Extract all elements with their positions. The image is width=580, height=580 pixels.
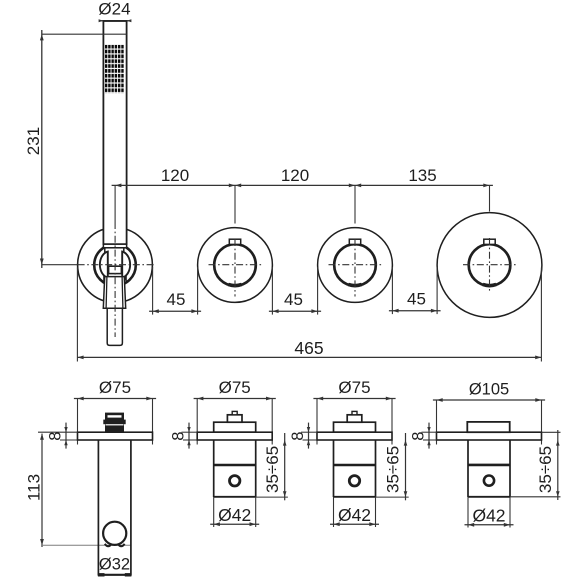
- section view 1 dimension 113: [25, 434, 44, 547]
- svg-text:35÷65: 35÷65: [536, 446, 555, 493]
- svg-text:45: 45: [167, 290, 186, 309]
- section view 3 dimension 8: [289, 423, 317, 449]
- section view 1 dimension Ø75: [74, 378, 156, 444]
- section view 2 dimension Ø75: [194, 378, 276, 444]
- section view 2 dimension Ø42: [210, 497, 259, 527]
- section view 4 dimension Ø105: [433, 381, 545, 445]
- hand shower handle body: [103, 21, 126, 244]
- hand shower spray face dots: [105, 45, 125, 93]
- section view 3 valve body: [317, 411, 392, 497]
- svg-text:8: 8: [47, 432, 65, 441]
- dimension 45 between valve 2 and 3: [269, 267, 321, 315]
- section view 2 dimension 8: [170, 423, 198, 449]
- section view 2 valve body: [197, 411, 272, 497]
- dimension line 465: [77, 356, 541, 360]
- dimension 45 between valve 3 and 4: [389, 267, 441, 314]
- section view 1 extension line at tube bottom: [42, 544, 131, 546]
- section view 3 dimension Ø75: [313, 378, 395, 444]
- svg-text:45: 45: [407, 289, 426, 308]
- dimension text 120 (first): [161, 166, 189, 185]
- dimension 465 extension lines: [77, 268, 541, 362]
- svg-text:Ø42: Ø42: [472, 506, 505, 526]
- section view 1 dimension text Ø32: [99, 555, 130, 573]
- valve 2 trim (outer circle, cartridge, tab, centerlines): [198, 228, 273, 303]
- dimension text 120 (second): [281, 166, 309, 185]
- section view 1 hand shower ball end: [103, 522, 126, 545]
- section view 4 dimension 8: [410, 423, 437, 449]
- svg-text:Ø42: Ø42: [338, 505, 371, 525]
- section view 4 dimension Ø42: [465, 497, 514, 528]
- svg-text:Ø75: Ø75: [338, 378, 370, 397]
- svg-text:8: 8: [410, 432, 428, 441]
- svg-text:35÷65: 35÷65: [384, 446, 403, 493]
- dimension text 231: [24, 127, 43, 155]
- svg-text:Ø32: Ø32: [99, 555, 130, 573]
- section view 3 dimension Ø42: [330, 497, 379, 527]
- valve 3 trim (outer circle, cartridge, tab, centerlines): [318, 228, 393, 303]
- valve 1 outer escutcheon circle: [78, 228, 153, 303]
- valve 1 vertical centerline: [114, 185, 116, 337]
- svg-text:8: 8: [289, 432, 307, 441]
- valve 1 inner cartridge circle: [94, 244, 136, 286]
- extension line valve 3 center: [354, 185, 356, 223]
- section view 2 dimension 35÷65: [256, 433, 288, 500]
- section view 1 dimension 8: [38, 423, 78, 449]
- holder neck: [105, 248, 124, 267]
- hand shower hose stub: [107, 308, 122, 345]
- svg-text:135: 135: [408, 166, 436, 185]
- dimension line 231 vertical: [40, 30, 44, 268]
- holder left wing: [100, 252, 108, 278]
- top dimension chain line: [112, 184, 493, 188]
- svg-text:120: 120: [281, 166, 309, 185]
- dimension text 135: [408, 166, 436, 185]
- svg-text:231: 231: [24, 127, 43, 155]
- section view 1 drop tube: [98, 440, 131, 576]
- svg-text:8: 8: [170, 432, 188, 441]
- section view 1 wall plate: [78, 432, 153, 440]
- handle/holder joint band: [103, 244, 126, 248]
- section view 4 dimension 35÷65: [510, 430, 561, 500]
- svg-text:113: 113: [25, 474, 44, 501]
- section view 4 wall plate: [437, 432, 542, 440]
- svg-text:Ø105: Ø105: [469, 381, 509, 399]
- holder left wedge: [103, 275, 107, 283]
- section view 4 cap: [467, 422, 509, 432]
- dimension line Ø24: [99, 19, 132, 22]
- svg-text:Ø75: Ø75: [219, 378, 251, 397]
- holder cone: [103, 277, 125, 309]
- holder right wedge: [123, 275, 127, 283]
- svg-text:Ø24: Ø24: [98, 0, 130, 19]
- holder clip plate: [109, 266, 122, 273]
- svg-text:120: 120: [161, 166, 189, 185]
- extension line top of 231 dim: [42, 33, 127, 35]
- dimension text Ø24: [98, 0, 130, 19]
- section view 1 ball socket cups: [105, 544, 125, 547]
- valve 1 horizontal centerline: [42, 264, 155, 266]
- section view 4 valve body: [468, 440, 510, 497]
- extension line valve 4 center: [489, 185, 491, 211]
- svg-text:465: 465: [294, 338, 323, 358]
- svg-text:45: 45: [284, 290, 303, 309]
- valve 4 thermostatic trim (outer circle, cartridge, tab, centerlines): [437, 213, 542, 318]
- dimension 45 between valve 1 and 2: [149, 267, 201, 315]
- svg-text:Ø42: Ø42: [218, 505, 251, 525]
- svg-text:35÷65: 35÷65: [263, 446, 282, 493]
- svg-text:Ø75: Ø75: [99, 378, 131, 397]
- dimension text 465: [294, 338, 323, 358]
- holder right wing: [122, 252, 130, 278]
- section view 3 dimension 35÷65: [376, 433, 409, 500]
- section view 1 holder socket: [103, 413, 125, 433]
- extension line valve 2 center: [234, 185, 236, 223]
